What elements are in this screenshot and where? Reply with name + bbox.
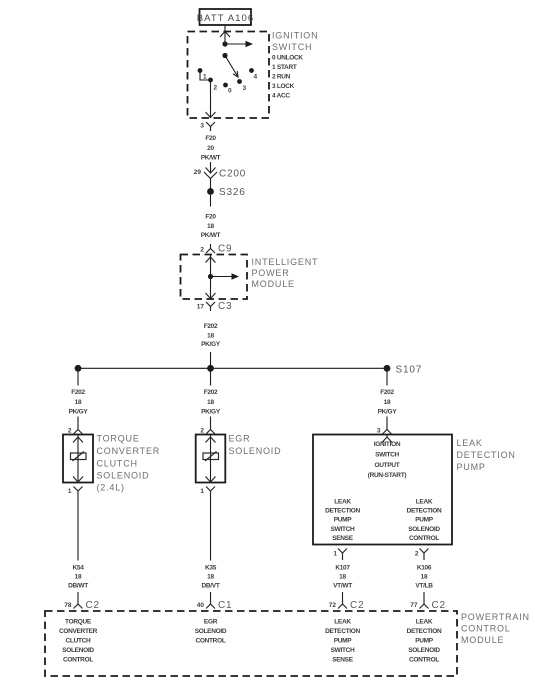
LDP text solenoid control <box>407 499 442 543</box>
svg-text:1: 1 <box>333 551 337 558</box>
svg-text:TORQUE: TORQUE <box>65 619 92 626</box>
junction dot middle <box>207 365 214 372</box>
wire label K54 18 DB/WT <box>68 565 88 590</box>
svg-text:77: 77 <box>410 602 418 609</box>
pin 2 LDP <box>415 551 419 558</box>
connector half above EGR solenoid <box>206 425 215 434</box>
intelligent power module dashed box <box>181 255 248 300</box>
svg-text:3: 3 <box>243 85 247 92</box>
svg-text:3 LOCK: 3 LOCK <box>272 83 295 90</box>
wire contact 1 to contact 2 <box>200 71 211 81</box>
splice S326 <box>207 187 245 198</box>
PCM text leak detection pump switch sense <box>325 619 360 664</box>
label C1 <box>218 600 232 611</box>
wire label F20 18 PK/WT <box>201 214 221 240</box>
pin 1 LDP <box>333 551 337 558</box>
PCM text leak detection pump solenoid control <box>407 619 442 664</box>
svg-text:C200: C200 <box>219 169 246 180</box>
svg-text:PK/GY: PK/GY <box>378 409 398 416</box>
LDP text switch sense <box>325 499 360 543</box>
svg-text:SOLENOID: SOLENOID <box>62 647 94 654</box>
svg-text:F202: F202 <box>71 389 85 396</box>
splice S107 <box>384 365 422 376</box>
wire right branch <box>386 372 388 386</box>
svg-text:TORQUE: TORQUE <box>97 434 140 444</box>
label POWERTRAIN CONTROL MODULE <box>461 612 530 645</box>
pin 2 C9 <box>200 247 204 254</box>
TCC internal wire <box>73 435 83 483</box>
wire into PCM pin 40 <box>210 592 212 600</box>
svg-text:0: 0 <box>228 88 232 95</box>
svg-text:VT/LB: VT/LB <box>415 583 433 590</box>
svg-text:IGNITION: IGNITION <box>272 31 318 41</box>
svg-text:K107: K107 <box>335 565 350 572</box>
svg-text:18: 18 <box>339 574 346 581</box>
wire K35 run <box>210 496 212 561</box>
connector half below LDP pin 2 <box>420 549 429 561</box>
svg-text:POWER: POWER <box>252 268 290 278</box>
svg-text:CLUTCH: CLUTCH <box>66 638 92 645</box>
svg-text:18: 18 <box>75 399 82 406</box>
svg-text:PK/GY: PK/GY <box>69 409 89 416</box>
svg-text:LEAK: LEAK <box>334 619 351 626</box>
wire K54 run <box>77 496 79 561</box>
wire mid branch <box>210 372 212 386</box>
switch contact 2 <box>208 78 217 92</box>
label IGNITION SWITCH <box>272 31 318 53</box>
connector C9 <box>206 244 215 253</box>
svg-text:PK/WT: PK/WT <box>201 155 221 162</box>
pin 3 leak detection pump <box>377 428 381 435</box>
svg-text:LEAK: LEAK <box>334 499 351 506</box>
label C3 <box>218 301 232 312</box>
IPM arrow to other circuits <box>211 273 240 279</box>
svg-text:C9: C9 <box>218 244 232 255</box>
svg-text:(RUN-START): (RUN-START) <box>368 472 407 479</box>
svg-text:1: 1 <box>200 488 204 495</box>
svg-text:2: 2 <box>415 551 419 558</box>
label C200 <box>219 169 246 180</box>
arrow to other circuits <box>225 41 253 47</box>
PCM text torque converter clutch solenoid control <box>59 619 98 664</box>
svg-text:18: 18 <box>384 399 391 406</box>
wire into PCM pin 78 <box>77 592 79 600</box>
svg-text:PUMP: PUMP <box>415 517 434 524</box>
powertrain control module dashed box <box>45 611 457 676</box>
svg-text:40: 40 <box>197 602 205 609</box>
svg-text:LEAK: LEAK <box>416 619 433 626</box>
svg-text:S107: S107 <box>396 365 423 376</box>
svg-text:2: 2 <box>200 428 204 435</box>
pin 2 TCC solenoid <box>68 428 72 435</box>
svg-text:PUMP: PUMP <box>334 638 353 645</box>
label LEAK DETECTION PUMP <box>457 438 516 472</box>
svg-text:OUTPUT: OUTPUT <box>375 462 400 469</box>
wire into PCM pin 72 <box>342 592 344 600</box>
pin 1 TCC solenoid <box>68 488 72 495</box>
label C2 <box>86 600 100 611</box>
pin 77 C2 <box>410 602 418 609</box>
svg-text:F20: F20 <box>205 135 216 142</box>
pin 2 EGR solenoid <box>200 428 204 435</box>
connector C2 at PCM pin 77 <box>420 600 429 609</box>
PCM text egr solenoid control <box>195 619 227 645</box>
svg-text:18: 18 <box>207 399 214 406</box>
label C2 <box>432 600 446 611</box>
egr solenoid box <box>196 435 226 483</box>
wire label F202 18 PK/GY middle <box>201 389 221 416</box>
svg-text:4 ACC: 4 ACC <box>272 93 290 100</box>
svg-text:SOLENOID: SOLENOID <box>408 647 440 654</box>
svg-text:SOLENOID: SOLENOID <box>229 446 282 456</box>
ignition switch output wire <box>206 80 216 118</box>
svg-text:DETECTION: DETECTION <box>457 450 516 460</box>
svg-text:2: 2 <box>68 428 72 435</box>
switch position labels <box>272 55 303 100</box>
svg-text:S326: S326 <box>219 187 246 198</box>
switch rotor arm wire <box>225 56 238 78</box>
svg-text:PK/WT: PK/WT <box>201 232 221 239</box>
connector half above TCC solenoid <box>74 425 83 434</box>
switch contact 3 <box>237 79 246 92</box>
svg-text:PUMP: PUMP <box>334 517 353 524</box>
svg-text:20: 20 <box>207 145 214 152</box>
battery feed box BATT A106 <box>197 9 255 25</box>
svg-text:DETECTION: DETECTION <box>325 508 360 515</box>
svg-text:CLUTCH: CLUTCH <box>97 459 138 469</box>
svg-text:2 RUN: 2 RUN <box>272 74 291 81</box>
TCC solenoid coil symbol <box>71 452 87 462</box>
pin 3 ignition switch <box>200 123 204 130</box>
svg-text:F202: F202 <box>204 389 218 396</box>
svg-text:C3: C3 <box>218 301 232 312</box>
IPM internal wire <box>206 255 216 299</box>
IPM node dot <box>208 274 213 279</box>
svg-text:CONTROL: CONTROL <box>409 535 439 542</box>
connector C200 <box>204 168 217 189</box>
pin 17 C3 <box>197 304 205 311</box>
pin 78 C2 <box>64 602 72 609</box>
svg-text:SWITCH: SWITCH <box>331 647 355 654</box>
connector C1 at PCM pin 40 <box>206 600 215 609</box>
svg-text:DETECTION: DETECTION <box>407 508 442 515</box>
node feed dot <box>222 41 227 46</box>
bus wire to S107 <box>78 367 387 369</box>
svg-text:MODULE: MODULE <box>461 635 504 645</box>
svg-text:CONTROL: CONTROL <box>461 624 511 634</box>
svg-text:MODULE: MODULE <box>252 279 295 289</box>
svg-text:K35: K35 <box>205 565 217 572</box>
svg-text:DB/VT: DB/VT <box>201 583 219 590</box>
connector half below TCC solenoid <box>74 487 83 496</box>
svg-text:C2: C2 <box>86 600 100 611</box>
svg-text:CONTROL: CONTROL <box>63 657 93 664</box>
label C9 <box>218 244 232 255</box>
connector C2 at PCM pin 78 <box>74 600 83 609</box>
svg-text:4: 4 <box>254 74 258 81</box>
wire label F202 18 PK/GY left <box>69 389 89 416</box>
svg-text:CONTROL: CONTROL <box>409 657 439 664</box>
connector half below ignition switch <box>206 122 215 131</box>
svg-text:PK/GY: PK/GY <box>201 341 221 348</box>
wire BATT A106 to ignition switch feed <box>224 25 226 44</box>
wire into PCM pin 77 <box>423 592 425 600</box>
svg-text:29: 29 <box>194 169 202 176</box>
svg-text:18: 18 <box>75 574 82 581</box>
svg-text:PK/GY: PK/GY <box>201 409 221 416</box>
connector half below EGR solenoid <box>206 487 215 496</box>
svg-text:C1: C1 <box>218 600 232 611</box>
leak detection pump box <box>313 435 452 545</box>
wire to leak detection pump <box>386 417 388 426</box>
svg-text:SOLENOID: SOLENOID <box>97 471 150 481</box>
svg-text:18: 18 <box>207 574 214 581</box>
LDP text ignition switch output <box>368 441 407 479</box>
svg-text:DB/WT: DB/WT <box>68 583 88 590</box>
connector C3 <box>206 302 215 311</box>
svg-text:17: 17 <box>197 304 205 311</box>
svg-text:(2.4L): (2.4L) <box>97 483 125 493</box>
pin 72 C2 <box>329 602 337 609</box>
svg-text:CONVERTER: CONVERTER <box>97 446 161 456</box>
svg-text:DETECTION: DETECTION <box>325 628 360 635</box>
svg-text:3: 3 <box>200 123 204 130</box>
connector half above leak detection pump <box>383 425 392 434</box>
torque converter clutch solenoid box <box>63 435 93 483</box>
switch contact 0 <box>223 83 232 95</box>
label C2 <box>350 600 364 611</box>
svg-text:F202: F202 <box>204 323 218 330</box>
svg-text:SOLENOID: SOLENOID <box>408 526 440 533</box>
svg-text:18: 18 <box>421 574 428 581</box>
svg-text:K106: K106 <box>417 565 432 572</box>
svg-text:LEAK: LEAK <box>457 438 483 448</box>
EGR internal wire <box>206 435 216 483</box>
svg-text:PUMP: PUMP <box>457 462 486 472</box>
wire label F20 20 PK/WT <box>201 135 221 162</box>
pin 40 C1 <box>197 602 205 609</box>
ignition switch dashed box <box>188 32 270 119</box>
svg-text:3: 3 <box>377 428 381 435</box>
svg-text:SWITCH: SWITCH <box>331 526 355 533</box>
svg-text:SENSE: SENSE <box>332 657 354 664</box>
svg-text:SWITCH: SWITCH <box>375 452 399 459</box>
svg-text:SENSE: SENSE <box>332 535 354 542</box>
wire to C200 <box>210 162 212 173</box>
wire to EGR solenoid <box>210 417 212 426</box>
svg-text:POWERTRAIN: POWERTRAIN <box>461 612 530 622</box>
arrowhead up at ignition switch entry <box>220 32 230 38</box>
svg-text:1 START: 1 START <box>272 64 297 71</box>
svg-text:K54: K54 <box>72 565 84 572</box>
svg-text:INTELLIGENT: INTELLIGENT <box>252 257 319 267</box>
svg-text:72: 72 <box>329 602 337 609</box>
svg-text:BATT A106: BATT A106 <box>197 13 255 24</box>
wire left branch <box>77 372 79 386</box>
svg-text:18: 18 <box>207 333 214 340</box>
node rotor pivot dot <box>222 53 227 58</box>
svg-text:0 UNLOCK: 0 UNLOCK <box>272 55 303 62</box>
label EGR SOLENOID <box>229 434 282 457</box>
svg-text:LEAK: LEAK <box>416 499 433 506</box>
svg-text:SOLENOID: SOLENOID <box>195 628 227 635</box>
svg-text:F202: F202 <box>380 389 394 396</box>
svg-text:C2: C2 <box>432 600 446 611</box>
wire to splice bus <box>210 352 212 365</box>
svg-text:VT/WT: VT/WT <box>333 583 352 590</box>
wire to TCC solenoid <box>77 417 79 426</box>
EGR solenoid coil symbol <box>203 452 219 462</box>
svg-text:78: 78 <box>64 602 72 609</box>
svg-text:1: 1 <box>68 488 72 495</box>
connector half below LDP pin 1 <box>338 549 347 561</box>
svg-text:DETECTION: DETECTION <box>407 628 442 635</box>
LDP entry wire <box>382 435 392 443</box>
label INTELLIGENT POWER MODULE <box>252 257 319 289</box>
svg-text:EGR: EGR <box>229 434 251 444</box>
wire below S326 <box>210 195 212 207</box>
svg-text:SWITCH: SWITCH <box>272 42 312 52</box>
wire label F202 18 PK/GY <box>201 323 221 348</box>
pin 29 C200 <box>194 169 202 176</box>
svg-text:CONVERTER: CONVERTER <box>59 628 98 635</box>
wire label K106 18 VT/LB <box>415 565 433 590</box>
svg-text:2: 2 <box>200 247 204 254</box>
wire label K107 18 VT/WT <box>333 565 352 590</box>
svg-text:C2: C2 <box>350 600 364 611</box>
svg-text:CONTROL: CONTROL <box>195 638 225 645</box>
svg-text:IGNITION: IGNITION <box>374 441 401 448</box>
wire label F202 18 PK/GY right <box>378 389 398 416</box>
switch contact 1 <box>198 68 207 80</box>
svg-text:F20: F20 <box>205 214 216 221</box>
switch contact 4 <box>249 68 257 80</box>
svg-text:PUMP: PUMP <box>415 638 434 645</box>
label TORQUE CONVERTER CLUTCH SOLENOID (2.4L) <box>97 434 161 493</box>
svg-text:18: 18 <box>207 223 214 230</box>
wire label K35 18 DB/VT <box>201 565 219 590</box>
svg-text:EGR: EGR <box>204 619 218 626</box>
junction dot left <box>75 365 82 372</box>
svg-text:2: 2 <box>214 85 218 92</box>
pin 1 EGR solenoid <box>200 488 204 495</box>
connector C2 at PCM pin 72 <box>338 600 347 609</box>
